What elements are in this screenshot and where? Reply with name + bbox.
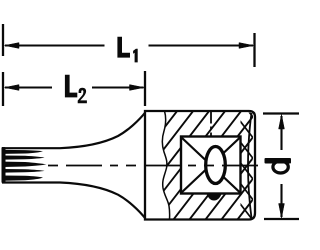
square drive hole (section) [181, 112, 241, 201]
L1 left extension tick [2, 24, 4, 56]
torx flute wedge 1 (top) [3, 150, 43, 154]
wavy break line [162, 111, 169, 219]
L1 right extension tick [253, 33, 255, 67]
envelope diagonal 2 [181, 137, 241, 193]
ball detent notch [207, 194, 222, 201]
label d (rotated) [265, 158, 292, 173]
envelope diagonal 1 [181, 137, 241, 193]
vertical centerline above square [210, 112, 212, 137]
socket body outline [145, 111, 255, 220]
L1 left arrowhead [5, 43, 20, 49]
L1 right arrowhead [239, 43, 254, 49]
bit/shank top outline [2, 112, 146, 149]
L2 left extension tick [2, 72, 4, 106]
dimension L1 [3, 24, 255, 67]
dimension d [263, 114, 299, 220]
d dimension line lower segment [280, 184, 282, 217]
square hole outline [181, 137, 241, 194]
label L1 [117, 37, 137, 63]
L1 dimension line left segment [5, 44, 105, 46]
L2 dimension line left segment [5, 86, 52, 88]
torx bit tip left face [2, 147, 6, 183]
hatching (section lines /) [58, 106, 320, 224]
label L2 [65, 75, 87, 104]
L2 dimension line right segment [92, 86, 144, 88]
centerline (dash-dot axis) [48, 165, 262, 167]
torx flute wedge 5 (bottom) [3, 176, 43, 181]
bit/shank bottom outline [2, 183, 146, 220]
L2 right arrowhead [130, 85, 145, 91]
L1 dimension line right segment [149, 44, 254, 46]
torx flute wedge 4 [3, 169, 45, 173]
end-face arc near right edge [248, 113, 252, 218]
d top arrowhead [279, 115, 285, 130]
d bottom extension tick [264, 218, 299, 220]
d bottom arrowhead [279, 204, 285, 219]
d dimension line upper segment [280, 116, 282, 150]
dimension L2 [3, 71, 145, 106]
torx flute wedge 3 (middle) [3, 162, 47, 167]
d top extension tick [263, 112, 299, 114]
pin hole ellipse [206, 147, 226, 184]
crosshatch (\) in right band [150, 108, 320, 223]
L2 left arrowhead [5, 85, 20, 91]
torx flute wedge 2 [3, 156, 45, 160]
L2 right extension tick [144, 71, 146, 106]
